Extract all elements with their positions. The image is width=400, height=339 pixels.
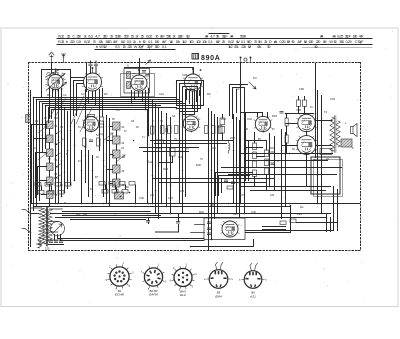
svg-text:60: 60 [122,126,125,129]
svg-text:1k2: 1k2 [228,44,233,49]
svg-text:89: 89 [292,148,295,151]
svg-text:EM4: EM4 [215,295,222,299]
svg-text:0,25: 0,25 [279,39,285,44]
diagonal wires B2 to left column [48,95,92,132]
right horizontals [222,114,342,191]
svg-text:220: 220 [127,44,133,49]
svg-text:47k: 47k [359,34,364,39]
svg-text:Z: Z [352,146,354,150]
trimmer arrows on coils [38,126,125,162]
svg-text:103: 103 [180,190,185,193]
svg-text:66: 66 [122,170,125,173]
svg-text:10k: 10k [202,39,207,44]
svg-text:2x: 2x [84,34,87,39]
svg-text:350: 350 [103,34,109,39]
svg-text:83: 83 [244,148,247,151]
svg-text:8uF: 8uF [113,39,118,44]
svg-text:0,1: 0,1 [241,39,246,44]
svg-text:51: 51 [78,126,81,129]
mains switch blades [22,210,31,233]
svg-text:8uF: 8uF [160,34,165,39]
svg-text:C90: C90 [299,87,304,91]
svg-text:50: 50 [143,39,147,44]
earth terminal [62,54,66,63]
output transformer [330,116,340,153]
svg-text:C40: C40 [251,210,256,214]
svg-text:T2: T2 [324,110,328,114]
svg-text:111: 111 [300,206,304,209]
stack side labels [55,125,58,197]
pickup terminals [241,58,251,63]
svg-text:1: 1 [158,264,160,267]
svg-text:R30: R30 [196,163,201,167]
AF coupling column B [265,150,269,175]
svg-text:0,5: 0,5 [127,39,132,44]
svg-text:a: a [204,278,206,281]
svg-text:C9: C9 [116,108,120,112]
pickup loop wiring [230,85,248,119]
extra mid labels [148,155,201,171]
antenna coil above B1 [47,72,59,74]
svg-text:15: 15 [110,34,113,39]
svg-text:ECH8I: ECH8I [115,293,124,297]
frame input filter [26,115,31,123]
svg-text:57: 57 [48,158,51,161]
osc section verticals [82,151,93,204]
svg-text:0,25: 0,25 [346,39,352,44]
svg-text:PU: PU [253,76,257,80]
B2 top trimmers [89,61,98,74]
tube B7 [254,116,272,131]
svg-text:100: 100 [189,39,195,44]
svg-text:109: 109 [270,194,275,197]
svg-text:47k: 47k [99,39,104,44]
dial lamp [51,222,65,236]
socket view B1 [106,262,135,297]
svg-text:30pF: 30pF [345,34,352,39]
svg-text:0,5: 0,5 [115,44,120,49]
svg-text:15: 15 [131,34,134,39]
svg-text:EAF8I: EAF8I [149,293,158,297]
B8 top trimmers [297,97,307,114]
svg-text:S2: S2 [100,119,104,123]
rectifier tube B10 [221,221,239,237]
bottom left wires [63,212,179,233]
B3 feed trimmer arrow [146,60,151,65]
B7 top feed [241,113,268,118]
svg-text:9: 9 [106,279,108,282]
svg-text:C2: C2 [63,93,67,97]
svg-text:C4: C4 [81,92,85,96]
svg-text:R9: R9 [207,92,211,96]
band stack labels [122,126,125,187]
bundle left corner drops [34,98,52,211]
svg-text:1k2: 1k2 [121,39,126,44]
caps bottom left [76,214,179,224]
tube B3 [130,69,148,91]
svg-text:2x: 2x [136,34,139,39]
svg-text:S3: S3 [131,119,135,123]
svg-text:890A: 890A [201,55,221,62]
socket view B2-B3 [141,264,167,297]
svg-text:L: L [345,121,347,125]
tube B8 [297,114,317,131]
svg-text:0,02: 0,02 [58,34,64,39]
svg-text:500: 500 [155,44,161,49]
parts table rules [57,34,372,50]
tube B4 [183,68,202,91]
mid horizontal links [140,141,233,152]
svg-text:8uF: 8uF [162,39,167,44]
svg-text:1k2: 1k2 [182,39,187,44]
svg-text:50: 50 [267,44,271,49]
svg-text:C: C [152,119,154,123]
svg-text:R24: R24 [297,212,302,216]
svg-text:C: C [72,34,75,39]
svg-text:6,3: 6,3 [88,34,93,39]
speaker [351,124,358,137]
svg-text:30pF: 30pF [222,34,229,39]
svg-text:C30: C30 [139,196,144,200]
svg-text:4,7: 4,7 [210,34,215,39]
svg-text:mA: mA [320,34,323,39]
svg-text:EL6: EL6 [180,293,186,297]
svg-text:25: 25 [67,34,70,39]
svg-text:B10: B10 [233,212,238,216]
svg-text:53: 53 [96,134,99,137]
svg-text:500: 500 [124,34,130,39]
band coil stack [113,122,124,199]
svg-text:2x: 2x [133,39,136,44]
svg-text:105: 105 [210,204,215,207]
svg-text:5000: 5000 [106,39,113,44]
svg-text:0,1: 0,1 [162,44,167,49]
svg-text:2x: 2x [173,34,176,39]
svg-text:220: 220 [45,247,50,251]
right of B4 verticals [209,63,245,251]
svg-text:47k: 47k [234,44,239,49]
svg-text:R: R [246,127,248,131]
svg-text:4,7: 4,7 [95,34,100,39]
rectifier unit terminals [191,222,211,235]
svg-text:1W: 1W [103,44,107,49]
svg-text:87: 87 [272,128,275,131]
resistor row A [35,183,71,195]
loudspeaker assembly box [311,157,343,197]
socket view B6 [239,263,268,298]
socket view B5 [204,262,234,298]
pickup switch [249,82,256,89]
IF outer box [121,74,155,97]
resistor row B [99,182,135,194]
svg-text:7: 7 [141,271,143,274]
resistor row wires [42,185,136,203]
svg-text:63: 63 [96,156,99,159]
svg-text:91: 91 [310,106,313,109]
svg-text:77: 77 [186,148,189,151]
long AF horizontals [153,179,275,183]
svg-text:220: 220 [241,44,247,49]
svg-text:1: 1 [122,262,124,265]
svg-text:1: 1 [186,264,188,267]
svg-text:25: 25 [123,44,126,49]
component reference labels [34,64,354,251]
svg-text:5: 5 [129,285,131,288]
hanging resistor [170,148,176,156]
svg-text:C42: C42 [148,160,153,164]
svg-text:b: b [139,39,141,44]
svg-text:73: 73 [160,120,163,123]
svg-text:61: 61 [78,160,81,163]
svg-text:C36: C36 [311,158,316,162]
right small resistors [280,112,288,154]
chassis dashed frame [29,63,361,251]
svg-text:100: 100 [309,39,315,44]
svg-text:0,5: 0,5 [76,39,81,44]
svg-text:0,02: 0,02 [146,34,152,39]
svg-text:R19: R19 [270,146,275,150]
svg-text:C33: C33 [330,97,335,101]
svg-text:1M: 1M [248,44,251,49]
trimmer arrow B2 [61,82,67,88]
svg-text:R14: R14 [221,117,226,121]
tube B2 [82,67,102,91]
svg-text:S4: S4 [172,114,176,118]
svg-text:R1: R1 [47,93,51,97]
rectifier unit box [204,218,245,240]
right bottom wiring [191,206,291,247]
mid verticals [148,100,186,219]
band stack taps [107,127,113,184]
B4 pin drops [187,91,200,108]
svg-text:5: 5 [192,286,194,289]
svg-text:69: 69 [136,126,139,129]
tube B6 [182,116,200,131]
B3 pin drops [132,89,149,136]
svg-text:70: 70 [254,39,258,44]
svg-text:C25: C25 [211,146,216,150]
svg-text:350: 350 [339,39,345,44]
svg-text:C15: C15 [182,73,187,77]
svg-text:95: 95 [60,184,63,187]
extra numeric labels [44,106,329,209]
svg-text:a: a [239,279,241,282]
svg-text:50: 50 [216,34,220,39]
svg-text:2M: 2M [287,39,290,44]
IF trimmers [133,71,150,85]
hanging component loop [159,146,173,163]
fuse zigzag [38,237,42,248]
svg-text:0,02: 0,02 [228,39,234,44]
svg-text:50: 50 [292,39,296,44]
svg-text:25: 25 [222,39,225,44]
coil hook mid [229,140,231,154]
svg-text:1W: 1W [170,39,174,44]
svg-text:mA: mA [205,34,208,39]
svg-text:b: b [66,39,68,44]
svg-text:99: 99 [126,186,129,189]
tube B5 [82,114,100,131]
svg-text:107: 107 [240,194,245,197]
parts table row 2 text [58,39,364,44]
extra junction dots [36,99,328,248]
svg-text:R7: R7 [95,175,99,179]
svg-text:30pF: 30pF [357,39,364,44]
svg-text:Tr: Tr [64,201,67,205]
grid wiring loops right of B4 [177,81,204,115]
svg-text:79: 79 [200,158,203,161]
svg-text:68: 68 [122,184,125,187]
tone control comps [224,180,234,189]
IF coils [127,72,131,89]
svg-text:9: 9 [170,280,172,283]
svg-text:b: b [96,44,98,49]
AF coupling column A [253,143,257,177]
svg-text:30pF: 30pF [178,34,185,39]
svg-text:L2: L2 [34,146,37,150]
input bandfilter loop [42,70,71,97]
wave switch contacts left [56,131,61,178]
B2 pin drops [86,89,103,183]
svg-text:8uF: 8uF [216,39,221,44]
grid loops left of B2 [71,78,84,116]
svg-text:S: S [127,64,129,68]
transformer terminal strip [320,149,332,155]
svg-text:k: k [266,279,268,282]
right area verticals [270,64,322,219]
svg-text:220: 220 [70,39,76,44]
svg-text:55: 55 [84,146,87,149]
svg-text:350: 350 [76,34,82,39]
svg-text:C7: C7 [74,108,78,112]
tone control wire loops [216,173,253,196]
AF short horizontals [246,141,267,168]
B8 B9 connections [282,121,333,187]
svg-text:30pF: 30pF [138,44,145,49]
parts table row 3 text [96,44,318,49]
tube B1 [46,69,66,92]
svg-text:500: 500 [247,39,253,44]
svg-text:70: 70 [269,39,273,44]
resistor pair mid [220,115,225,141]
svg-text:3: 3 [165,281,167,284]
parts table row 3 rule right [302,47,372,49]
svg-text:70: 70 [155,34,159,39]
components below B5 [83,138,101,146]
svg-text:3: 3 [132,272,134,275]
svg-text:L5: L5 [121,146,124,150]
svg-text:C17: C17 [236,87,241,91]
svg-text:58: 58 [55,194,58,197]
heater wiring double line [58,235,205,241]
B3 grid feed through frame [139,59,141,75]
left long verticals [31,91,75,247]
small mid components [151,126,168,144]
svg-text:R6: R6 [54,176,58,180]
svg-text:R28: R28 [163,167,168,171]
svg-text:R3: R3 [104,92,108,96]
antenna terminal [49,52,54,63]
svg-text:47k: 47k [257,44,262,49]
svg-text:101: 101 [150,194,155,197]
svg-text:C44: C44 [178,155,183,159]
svg-text:1M: 1M [304,39,307,44]
svg-text:71: 71 [142,136,145,139]
svg-text:C12: C12 [159,92,164,96]
svg-text:1M: 1M [323,39,326,44]
svg-text:25: 25 [264,39,267,44]
parts table row 1 text [58,34,363,39]
svg-text:C: C [277,159,279,163]
svg-text:R18: R18 [272,114,277,118]
AF column verticals [246,113,267,191]
svg-text:8uF: 8uF [298,39,303,44]
svg-text:1W: 1W [236,39,240,44]
AF caps [271,152,274,165]
field coil blob [341,139,352,147]
svg-text:5000: 5000 [115,34,122,39]
svg-text:0,1: 0,1 [208,39,213,44]
B4 cap node dot [200,69,202,71]
svg-text:a: a [62,138,64,141]
svg-text:25: 25 [141,34,144,39]
svg-text:1W: 1W [186,34,190,39]
svg-text:R15: R15 [230,136,235,140]
svg-text:C28: C28 [296,108,301,112]
svg-text:500: 500 [167,34,173,39]
bottom bus lines [31,204,361,218]
components right of B5 [100,117,104,134]
scan speckle noise [6,28,395,303]
right verticals to box [246,187,338,232]
svg-text:56: 56 [55,173,58,176]
right bottom resistors [280,219,296,225]
svg-text:0,25: 0,25 [337,34,343,39]
svg-text:C31: C31 [168,196,173,200]
mid long verticals [234,115,240,218]
svg-text:50: 50 [334,39,338,44]
power transformer [31,207,63,246]
svg-text:AZ1: AZ1 [249,295,256,299]
band stack rails [104,116,117,207]
svg-text:mA: mA [333,34,336,39]
svg-text:62: 62 [122,142,125,145]
oscillator coil stack [47,121,54,199]
svg-text:30pF: 30pF [147,44,154,49]
svg-text:100: 100 [196,39,202,44]
lamp leads [55,235,61,241]
svg-text:mA: mA [274,39,277,44]
B1 pin drops [50,89,62,119]
svg-text:10k: 10k [176,39,181,44]
socket view B4 [170,264,198,298]
svg-text:70: 70 [93,39,97,44]
svg-text:100: 100 [155,39,161,44]
grid cap link wire [125,68,194,75]
svg-text:25: 25 [61,39,64,44]
tube B9 [296,136,317,155]
svg-text:3: 3 [195,273,197,276]
svg-text:65: 65 [112,118,115,121]
svg-text:S1: S1 [35,119,39,123]
svg-text:0,1: 0,1 [148,39,153,44]
wire from frame to B2 [86,63,88,92]
svg-text:0,02: 0,02 [84,39,90,44]
svg-text:C5: C5 [60,126,64,129]
wire bundle: AVC and grid return lines [34,98,186,110]
svg-text:100: 100 [353,34,359,39]
svg-text:mA: mA [230,34,233,39]
